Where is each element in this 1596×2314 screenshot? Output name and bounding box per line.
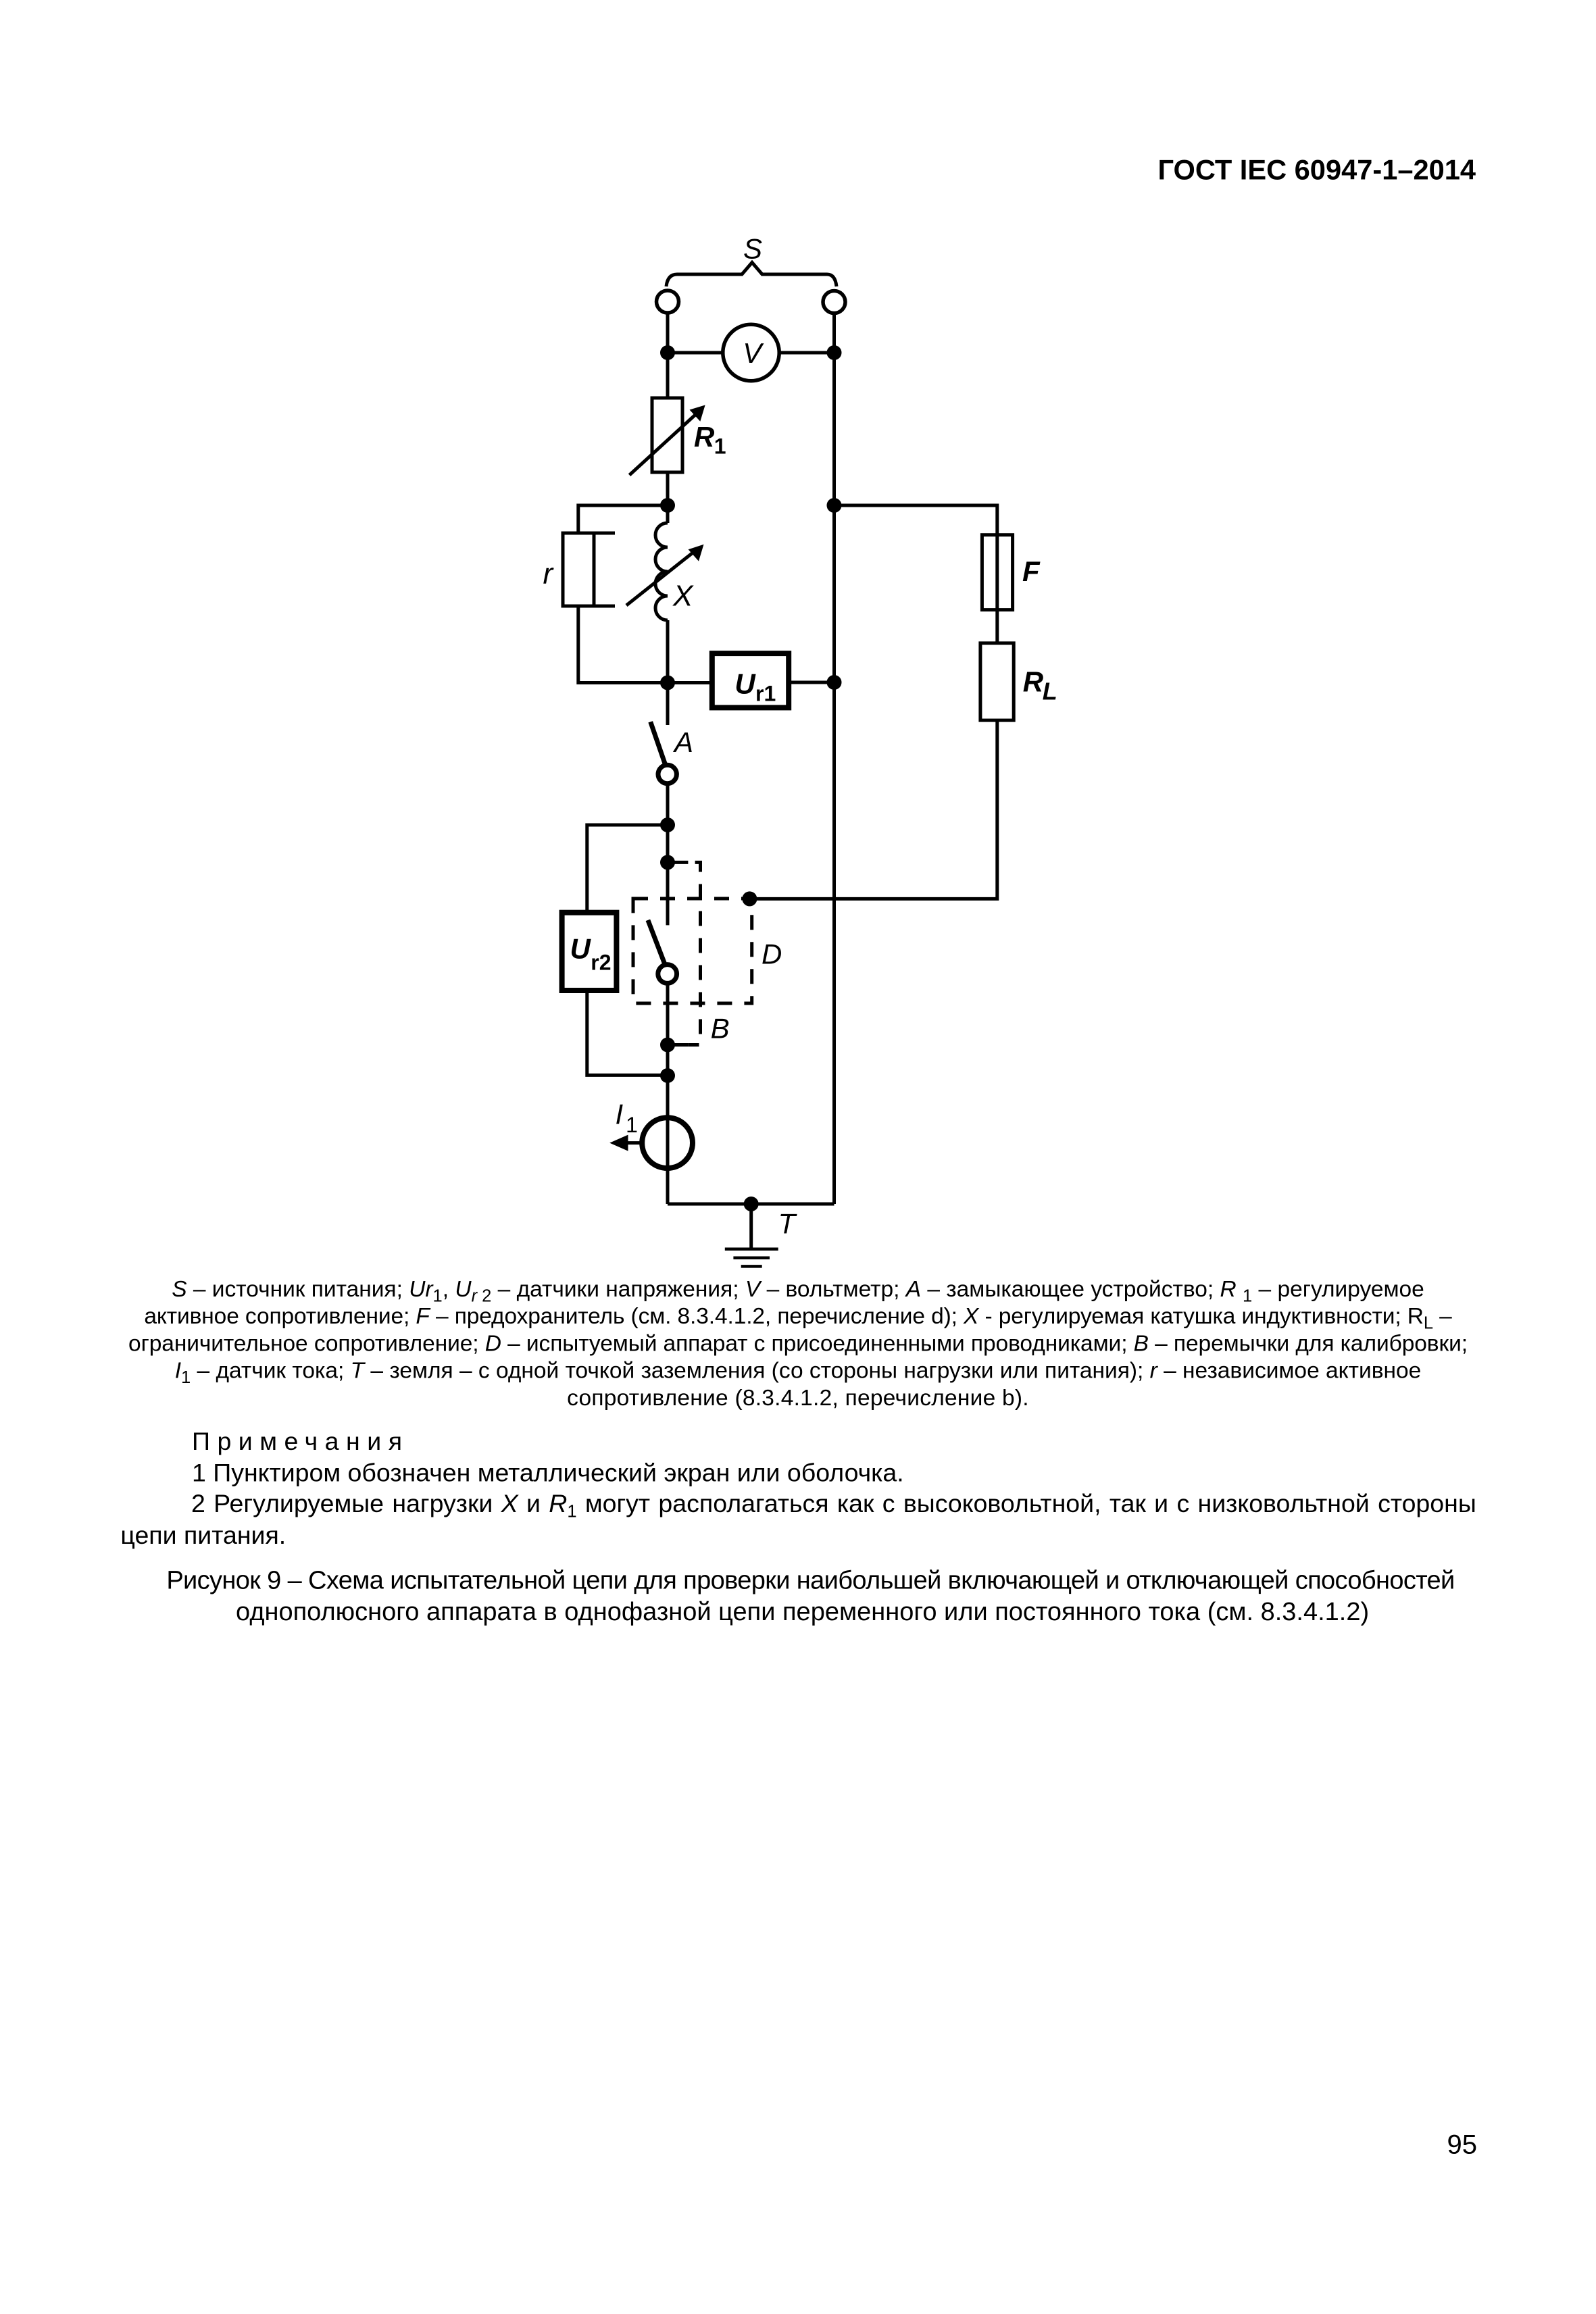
- voltmeter V: [723, 324, 779, 380]
- svg-text:S: S: [743, 233, 762, 265]
- svg-text:активное сопротивление; F – пр: активное сопротивление; F – предохраните…: [144, 1304, 1452, 1333]
- junction row1546: [660, 1038, 675, 1053]
- wire: Ur2 bottom: [587, 990, 668, 1075]
- svg-text:R: R: [694, 421, 715, 453]
- wire: to fuse branch: [834, 505, 997, 535]
- svg-text:S – источник питания; Ur1, Ur: S – источник питания; Ur1, Ur 2 – датчик…: [172, 1277, 1424, 1306]
- svg-text:ГОСТ IEC 60947-1–2014: ГОСТ IEC 60947-1–2014: [1157, 153, 1476, 185]
- wire: X to junction: [666, 620, 670, 725]
- wire: R1 to junction row 748: [666, 472, 670, 523]
- inductor X (adjustable): [655, 523, 668, 620]
- junction bottom: [744, 1197, 759, 1211]
- terminal left (source): [657, 291, 679, 313]
- svg-text:Примечания: Примечания: [192, 1427, 409, 1455]
- wire: F to RL: [995, 610, 999, 643]
- wire: stub to jumper B top: [668, 861, 688, 864]
- svg-text:r: r: [543, 557, 555, 590]
- svg-text:1: 1: [714, 434, 726, 458]
- fuse F: [982, 535, 1012, 610]
- svg-text:1 Пунктиром обозначен металлич: 1 Пунктиром обозначен металлический экра…: [192, 1459, 904, 1487]
- wire: below switch D: [666, 983, 670, 1204]
- junction row1276: [660, 855, 675, 870]
- resistor r: [563, 533, 594, 606]
- terminal right (source): [823, 291, 845, 313]
- wire: bottom run: [668, 1203, 834, 1206]
- svg-text:I: I: [616, 1098, 624, 1130]
- svg-text:B: B: [711, 1013, 730, 1045]
- junction left top: [660, 345, 675, 360]
- svg-text:95: 95: [1447, 2130, 1478, 2159]
- svg-text:D: D: [762, 938, 782, 970]
- svg-text:U: U: [570, 933, 592, 965]
- junction row1221: [660, 818, 675, 832]
- wire: to Ur2 top: [587, 825, 668, 913]
- junction right row748: [827, 498, 842, 513]
- junction row1592: [660, 1068, 675, 1083]
- wire: junction to voltmeter: [668, 351, 723, 355]
- svg-text:1: 1: [626, 1113, 638, 1137]
- wire: voltmeter to right junction: [779, 351, 834, 355]
- wire: junction to Ur1: [668, 681, 712, 684]
- svg-text:однополюсного аппарата в одноф: однополюсного аппарата в однофазной цепи…: [236, 1598, 1369, 1626]
- wire: r branch top: [578, 505, 668, 533]
- wire: stub to jumper B bottom: [668, 1043, 688, 1047]
- brace under S: [666, 263, 837, 287]
- svg-text:A: A: [672, 726, 693, 758]
- svg-text:r2: r2: [591, 950, 611, 974]
- svg-text:X: X: [672, 580, 694, 613]
- metal screen D (dashed box): [633, 899, 752, 1003]
- jumper B (dashed calibration link): [688, 862, 700, 1045]
- svg-text:Рисунок 9 – Схема испытательно: Рисунок 9 – Схема испытательной цепи для…: [166, 1566, 1454, 1594]
- voltage sensor Ur2: [562, 913, 617, 990]
- svg-text:ограничительное сопротивление;: ограничительное сопротивление; D – испыт…: [128, 1331, 1468, 1356]
- svg-text:T: T: [778, 1208, 798, 1240]
- svg-text:L: L: [1043, 678, 1057, 705]
- svg-text:2 Регулируемые нагрузки X и R1: 2 Регулируемые нагрузки X и R1 могут рас…: [191, 1489, 1476, 1521]
- wire: RL down to D box corner: [749, 720, 997, 899]
- svg-text:сопротивление (8.3.4.1.2, пере: сопротивление (8.3.4.1.2, перечисление b…: [567, 1386, 1029, 1411]
- junction left row748: [660, 498, 675, 513]
- svg-text:цепи питания.: цепи питания.: [120, 1521, 286, 1549]
- svg-text:F: F: [1022, 555, 1041, 587]
- wire: switch A to junction: [666, 784, 670, 926]
- switch D (device under test): [648, 920, 666, 966]
- wire: left terminal down: [666, 313, 670, 398]
- switch A: [651, 722, 666, 764]
- svg-text:r1: r1: [755, 681, 776, 705]
- voltage sensor Ur1: [712, 653, 789, 707]
- junction left row1010: [660, 676, 675, 690]
- ground T: [749, 1204, 753, 1248]
- current sensor I1: [642, 1117, 693, 1168]
- junction D box corner: [742, 891, 757, 906]
- svg-text:U: U: [734, 668, 756, 699]
- wire: right main vertical: [832, 313, 836, 1205]
- svg-text:V: V: [743, 337, 764, 369]
- resistor R1 (adjustable): [652, 398, 682, 472]
- svg-text:R: R: [1023, 665, 1044, 697]
- wire: r branch bottom: [578, 606, 668, 683]
- svg-text:I1 – датчик тока; T – земля –: I1 – датчик тока; T – земля – с одной то…: [175, 1359, 1422, 1388]
- resistor RL (limiting): [980, 643, 1014, 720]
- wire: Ur1 to right line: [789, 681, 834, 684]
- junction right top: [827, 345, 842, 360]
- junction right row1010: [827, 675, 842, 690]
